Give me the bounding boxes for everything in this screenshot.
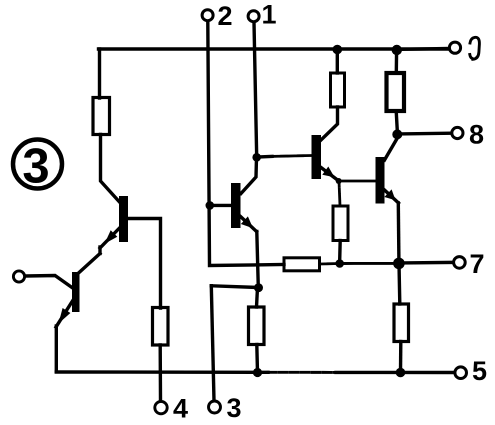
transistor Q3: [231, 183, 241, 228]
node F junction: [392, 129, 402, 139]
svg-text:2: 2: [217, 1, 232, 31]
resistor R8 horizontal: [284, 258, 320, 271]
transistor Q1: [119, 196, 128, 242]
wire pin 1 vertical down to node C: [254, 23, 257, 158]
node I junction: [393, 258, 405, 270]
wire R5 bottom to node F: [396, 111, 397, 131]
terminal pin 2: [202, 10, 213, 21]
resistor R5: [387, 73, 405, 111]
resistor R7: [394, 304, 409, 342]
wire Q3 emitter down to node E: [257, 232, 259, 288]
terminal pin 3: [211, 286, 214, 401]
transistor Q2: [72, 272, 80, 312]
node C junction: [252, 153, 261, 162]
wire top supply rail: [99, 47, 449, 50]
wire R5 top to rail: [395, 50, 399, 73]
wire R4 top to rail: [336, 50, 339, 74]
terminal pin 5: [455, 367, 467, 379]
resistor R1: [93, 98, 110, 135]
wire node G down to R6: [339, 181, 340, 206]
wire R8 right lead to node H (dashed): [320, 262, 340, 265]
wire R1 bottom to Q1 collector: [101, 135, 120, 203]
wire node G to Q5 base (dashed): [341, 180, 376, 183]
wire pin 3 branch to node E: [211, 286, 258, 288]
svg-text:4: 4: [173, 393, 188, 423]
transistor Q5: [376, 157, 385, 204]
wire R7 bottom to bottom rail: [399, 342, 403, 373]
wire node C to Q3 collector: [241, 157, 257, 193]
resistor R3: [249, 307, 265, 345]
svg-text:3: 3: [22, 140, 49, 194]
node D junction on pin-2 line: [206, 201, 215, 210]
terminal pin 4: [155, 401, 167, 413]
wire pin 2 vertical down (crosses rail) then right to R8: [208, 22, 284, 266]
node G junction Q4 emitter: [336, 178, 342, 184]
wire Q4 collector to R4: [321, 107, 338, 140]
wire node H to node I (dashed): [344, 262, 394, 265]
wire R3 bottom to bottom rail: [255, 345, 259, 373]
node J junction on bottom rail: [253, 368, 262, 377]
svg-text:7: 7: [469, 249, 484, 279]
node K junction: [396, 368, 406, 378]
resistor R2: [153, 308, 169, 346]
svg-text:5: 5: [472, 356, 487, 386]
resistor R6: [333, 206, 348, 241]
wire R6 bottom to node H: [338, 241, 342, 261]
node E junction: [254, 283, 263, 292]
svg-text:8: 8: [469, 119, 484, 149]
wire Q1 emitter to Q2 collector: [78, 254, 100, 274]
terminal pin 9 top right: [397, 47, 448, 51]
terminal input left: [13, 271, 24, 282]
node H junction: [335, 259, 344, 268]
wire node I down to R7: [397, 263, 401, 304]
wire Q1 base lead to R2: [128, 219, 161, 309]
node B junction: [392, 45, 402, 55]
wire node E down to R3: [257, 288, 258, 307]
wire Q5 collector to node F: [385, 140, 397, 161]
node A junction: [333, 45, 343, 55]
wire input terminal to Q2 base: [26, 276, 72, 288]
wire bottom rail: [56, 370, 268, 374]
svg-text:1: 1: [261, 0, 276, 29]
svg-text:3: 3: [226, 393, 241, 423]
resistor R4: [331, 73, 345, 107]
terminal pin 8: [400, 131, 451, 135]
figure number circled 3: [13, 140, 62, 189]
wire R2 bottom to pin 4 (crosses bottom rail): [158, 345, 162, 401]
terminal pin 7: [403, 261, 453, 265]
wire node C to Q4 base (partly dashed): [259, 155, 272, 159]
label pin 9 (broken 0 glyph): [470, 37, 479, 59]
terminal pin 1: [248, 11, 259, 22]
transistor Q4: [312, 135, 322, 179]
wire left vertical from rail to R1: [98, 49, 101, 98]
wire Q5 emitter down to node I: [397, 203, 401, 259]
wire node D to Q3 base: [210, 204, 231, 207]
